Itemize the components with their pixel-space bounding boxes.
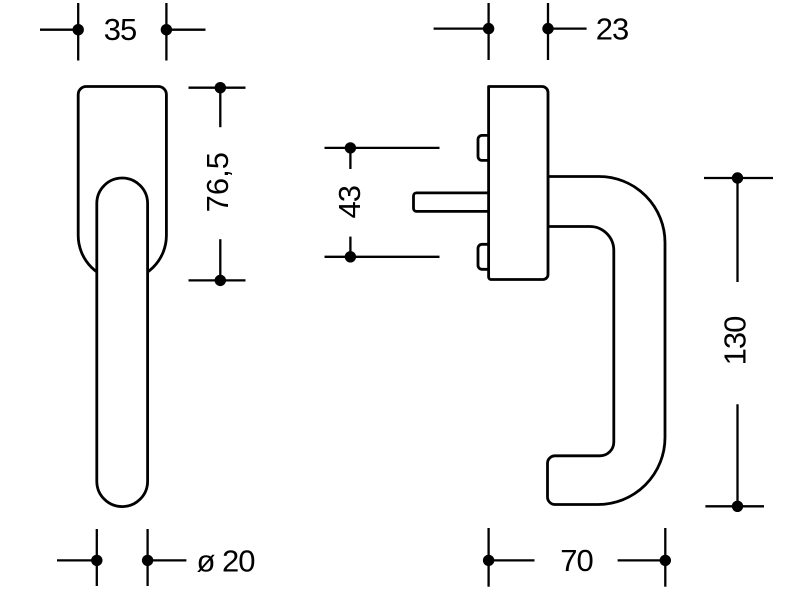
dimension 76,5: top extension line xyxy=(189,87,246,89)
dimension 130: top extension line xyxy=(704,177,773,179)
spindle shaft (side view) xyxy=(414,193,490,212)
dimension 35: right dimension line xyxy=(166,29,205,31)
dimension 23: right extension line xyxy=(547,3,549,60)
dimension 43: upper dimension line stub xyxy=(349,148,351,169)
dimension ø20: left dimension line xyxy=(57,559,97,561)
dimension 130: upper dimension line stub xyxy=(736,178,738,282)
dimension 130: lower dimension line stub xyxy=(736,404,738,506)
dimension 70: right dot xyxy=(660,555,671,566)
dimension 43: value label (rotated) xyxy=(332,186,367,218)
dimension 23: left extension line xyxy=(487,3,489,60)
dimension 76,5: upper dimension line stub xyxy=(219,88,221,128)
dimension 70: right extension line xyxy=(664,528,666,587)
dimension 76,5: value label (rotated) xyxy=(200,152,235,212)
dimension 23: right dimension line xyxy=(548,27,587,29)
lever handle (side view) xyxy=(548,177,666,505)
dimension 70: right dimension line xyxy=(618,559,666,561)
upper fixing screw boss (side view) xyxy=(478,135,490,160)
dimension ø20: right extension line xyxy=(146,529,148,586)
dimension 43: top dot xyxy=(345,142,356,153)
dimension 35: left dimension line xyxy=(40,29,78,31)
dimension ø20: left extension line xyxy=(96,529,98,586)
dimension 130: value label (rotated) xyxy=(718,316,753,365)
dimension 76,5: bottom dot xyxy=(215,275,226,286)
svg-text:23: 23 xyxy=(596,12,628,47)
svg-text:35: 35 xyxy=(104,12,136,47)
dimension 35: left dot xyxy=(73,24,84,35)
svg-text:70: 70 xyxy=(560,543,593,578)
dimension 23: left dot xyxy=(483,23,494,34)
dimension 130: bottom dot xyxy=(732,501,743,512)
dimension 70: left dot xyxy=(483,555,494,566)
dimension 43: lower dimension line stub xyxy=(349,237,351,257)
dimension 35: right dot xyxy=(161,24,172,35)
rosette / escutcheon (side view) xyxy=(489,87,548,280)
svg-text:43: 43 xyxy=(332,186,367,218)
dimension 43: bottom dot xyxy=(345,251,356,262)
svg-text:76,5: 76,5 xyxy=(200,152,235,212)
dimension 35: right extension line xyxy=(165,3,167,61)
dimension 76,5: top dot xyxy=(215,82,226,93)
dimension 76,5: bottom extension line xyxy=(189,279,246,281)
dimension 23: left dimension line xyxy=(434,27,489,29)
dimension 35: value label xyxy=(104,12,136,47)
dimension 23: value label xyxy=(596,12,628,47)
dimension 70: left dimension line xyxy=(489,559,535,561)
handle grip (front view, stadium shape) xyxy=(97,178,148,507)
dimension ø20: right dimension line xyxy=(148,559,187,561)
dimension 130: top dot xyxy=(732,172,743,183)
dimension ø20: value label xyxy=(197,543,256,578)
dimension 130: bottom extension line xyxy=(705,505,764,507)
dimension ø20: left dot xyxy=(91,555,102,566)
dimension 76,5: lower dimension line stub xyxy=(219,239,221,280)
handle front view: outer escutcheon plate xyxy=(78,87,166,281)
dimension 23: right dot xyxy=(542,23,553,34)
dimension 70: left extension line xyxy=(487,528,489,587)
svg-text:130: 130 xyxy=(718,316,753,365)
dimension 43: top extension line xyxy=(325,147,440,149)
lower fixing screw boss (side view) xyxy=(478,244,490,269)
dimension 35: left extension line xyxy=(77,3,79,61)
svg-text:ø 20: ø 20 xyxy=(197,543,256,578)
dimension 70: value label xyxy=(560,543,593,578)
dimension 43: bottom extension line xyxy=(325,256,440,258)
dimension ø20: right dot xyxy=(142,555,153,566)
